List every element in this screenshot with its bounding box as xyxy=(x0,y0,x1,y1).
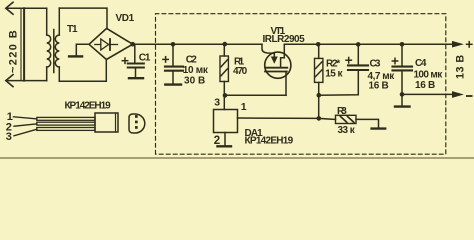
output arrow plus xyxy=(453,42,463,47)
wire top input xyxy=(7,7,47,9)
package pin 3 label and leader xyxy=(6,129,37,143)
input arrow bottom xyxy=(6,75,13,87)
label plus C1 xyxy=(122,58,127,63)
svg-text:КР142ЕН19: КР142ЕН19 xyxy=(245,136,294,147)
label VD1 xyxy=(116,13,135,24)
bridge rectifier VD1 diamond xyxy=(89,28,133,59)
IC DA1 box xyxy=(214,110,238,133)
svg-text:13 В: 13 В xyxy=(455,55,467,79)
dashed stabilizer box xyxy=(156,14,446,155)
node C2 top xyxy=(171,42,176,47)
label ~220 V xyxy=(7,30,19,73)
svg-text:IRLR2905: IRLR2905 xyxy=(263,34,306,45)
label R3 xyxy=(337,106,356,136)
svg-text:КР142ЕН19: КР142ЕН19 xyxy=(65,101,112,112)
transformer T1 secondary winding xyxy=(55,8,59,81)
label output plus xyxy=(467,42,472,47)
DA1 pin 1 wire to ref node xyxy=(238,117,319,119)
node R2 top xyxy=(316,42,321,47)
wire C3 bottom to R2 xyxy=(319,70,359,95)
label output minus xyxy=(467,95,472,97)
svg-text:3: 3 xyxy=(214,97,220,109)
capacitor C3 xyxy=(348,44,368,70)
svg-text:470: 470 xyxy=(233,66,248,77)
node C4 bottom xyxy=(400,92,405,97)
ground at bridge xyxy=(69,55,82,57)
ground at R3 xyxy=(372,127,386,129)
transistor VT1 internals xyxy=(265,57,287,72)
svg-text:10 мк: 10 мк xyxy=(183,65,209,76)
svg-text:C3: C3 xyxy=(370,58,381,69)
output arrow minus xyxy=(453,92,463,97)
svg-text:3: 3 xyxy=(6,131,12,143)
pin number and name labels DA1 xyxy=(214,97,294,148)
wire secondary top to bridge xyxy=(59,8,107,28)
label plus C3 xyxy=(346,58,351,63)
transformer T1 core xyxy=(53,30,55,73)
package front view with 3 dots xyxy=(129,114,145,133)
capacitor C4 xyxy=(393,44,413,94)
label 13 V xyxy=(455,55,467,79)
package pin leads xyxy=(37,117,95,130)
node C4 top xyxy=(400,42,405,47)
svg-text:R3: R3 xyxy=(337,106,347,117)
ground at DA1 xyxy=(218,145,232,147)
svg-text:1: 1 xyxy=(241,101,247,113)
wire plus rail left segment xyxy=(133,43,262,45)
label VT1 xyxy=(263,26,306,45)
label C1 xyxy=(139,52,151,63)
diode inside VD1 xyxy=(95,39,118,50)
wire secondary bottom to bridge xyxy=(59,60,106,82)
node bridge plus xyxy=(130,42,135,47)
svg-text:30 В: 30 В xyxy=(184,76,205,87)
DA1 pin 3 lead xyxy=(223,95,225,109)
wire bottom input xyxy=(7,80,47,82)
wire plus rail right segment xyxy=(284,43,453,45)
svg-text:15 к: 15 к xyxy=(325,69,343,80)
svg-text:C2: C2 xyxy=(186,54,197,65)
ground at C4 xyxy=(395,94,410,106)
transformer T1 primary winding xyxy=(47,8,51,81)
ground at C1 xyxy=(129,77,143,79)
resistor R2* xyxy=(315,44,323,118)
svg-text:C4: C4 xyxy=(415,58,427,69)
DA1 pin 2 lead xyxy=(224,133,226,145)
VT1 drain lead from left rail xyxy=(262,44,274,57)
label plus C2 xyxy=(163,57,168,62)
svg-text:100 мк: 100 мк xyxy=(414,69,444,80)
input arrow top xyxy=(6,2,13,14)
svg-text:2: 2 xyxy=(214,135,220,147)
node R2/C3 junction xyxy=(317,93,322,98)
resistor R1 xyxy=(220,44,228,95)
capacitor C1 xyxy=(128,44,144,76)
wire gate node to VT1 gate xyxy=(225,94,286,96)
paper background xyxy=(0,0,474,159)
svg-text:33 к: 33 к xyxy=(338,125,356,136)
label plus C4 xyxy=(392,58,397,63)
wire VT1 gate down xyxy=(285,72,287,96)
node ref junction xyxy=(317,116,322,121)
node C3 top xyxy=(356,42,361,47)
wire minus output xyxy=(402,93,454,95)
ground at C2 xyxy=(165,83,181,85)
package pin 1 label and leader xyxy=(7,111,37,123)
svg-text:C1: C1 xyxy=(139,52,151,63)
label C2 xyxy=(183,54,209,86)
wire bridge minus to ground xyxy=(76,44,89,55)
VT1 source lead from right rail xyxy=(281,44,285,67)
package pin 2 label and leader xyxy=(6,122,37,134)
label C3 xyxy=(368,58,396,91)
label R2* xyxy=(325,59,343,80)
package label KR142EN19 xyxy=(65,101,112,112)
label R1 xyxy=(233,56,248,77)
node R1 top xyxy=(223,42,228,47)
capacitor C2 xyxy=(165,44,183,83)
svg-text:16 В: 16 В xyxy=(415,80,435,91)
transistor VT1 circle xyxy=(265,52,291,78)
resistor R3 xyxy=(319,115,379,127)
label T1 xyxy=(67,24,78,35)
node gate junction xyxy=(223,93,228,98)
svg-text:T1: T1 xyxy=(67,24,78,35)
svg-text:VD1: VD1 xyxy=(116,13,135,24)
svg-text:16 В: 16 В xyxy=(369,81,389,92)
wire input vertical thick xyxy=(23,8,25,80)
package body side view xyxy=(95,113,118,132)
wire input vertical thin xyxy=(20,8,22,80)
label C4 xyxy=(414,58,444,91)
